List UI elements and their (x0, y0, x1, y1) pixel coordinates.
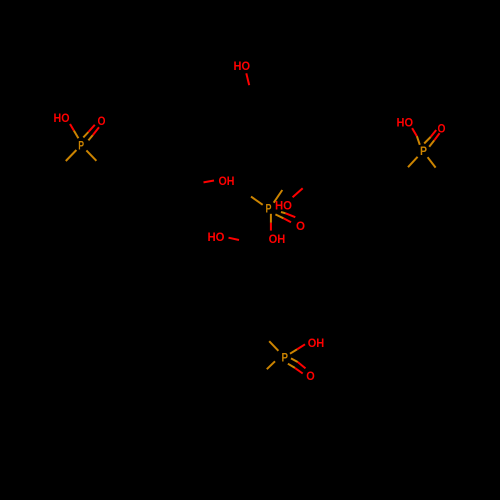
double bond P=O left line2 orange (88, 135, 92, 140)
wire bond stub top O-C (246, 73, 249, 85)
svg-text:OH: OH (308, 336, 325, 350)
bond P-C bottom up-left (269, 341, 278, 351)
double bond P=O right line2 red (434, 133, 439, 140)
double bond P=O right line1 red (431, 130, 437, 137)
bond P-C central up-left (251, 197, 263, 205)
bond P-OH central vertical orange half (270, 214, 272, 223)
bond HO-P left (orange half) (74, 131, 79, 139)
svg-text:O: O (306, 369, 315, 383)
double bond P=O left line2 red (93, 127, 99, 135)
double bond P=O bottom line2 orange (288, 364, 295, 368)
bond P-C right down-right (428, 157, 436, 167)
double bond P=O left line1 orange (83, 132, 88, 137)
svg-text:P: P (282, 350, 289, 364)
double bond P=O central line1 red (286, 213, 296, 217)
svg-text:OH: OH (219, 174, 235, 188)
svg-text:HO: HO (397, 115, 414, 129)
bond HO-P right (red half) (412, 128, 417, 136)
bond stub C-OH central upper-left (204, 181, 215, 183)
bond stub HO-C central lower-left (229, 238, 240, 240)
svg-text:HO: HO (234, 59, 251, 73)
double bond P=O bottom line1 orange (291, 358, 298, 362)
svg-text:P: P (78, 138, 84, 152)
bond P-OH central vertical red half (270, 223, 272, 231)
bond HO-P right (orange half) (417, 136, 420, 145)
svg-text:O: O (296, 219, 305, 233)
bond P-OH bottom red half (297, 344, 305, 349)
bond stub HO-C central right (293, 188, 303, 197)
double bond P=O central line1 orange (281, 212, 286, 213)
double bond P=O right line2 orange (429, 140, 434, 147)
double bond P=O bottom line2 red (295, 368, 303, 374)
svg-text:P: P (420, 144, 427, 158)
double bond P=O central line2 red (284, 218, 292, 222)
bond P-C left down-right (86, 150, 96, 160)
double bond P=O bottom line1 red (298, 362, 306, 368)
bond P-C bottom down-left (267, 361, 275, 369)
svg-text:OH: OH (269, 232, 286, 246)
svg-text:HO: HO (54, 111, 70, 125)
bond P-C left down-left (66, 150, 77, 161)
double bond P=O central line2 orange (275, 214, 283, 218)
bond P-OH bottom orange half (290, 349, 297, 353)
svg-text:O: O (98, 114, 106, 128)
double bond P=O left line1 red (88, 125, 94, 132)
svg-text:HO: HO (275, 199, 292, 213)
svg-text:HO: HO (208, 230, 225, 244)
double bond P=O right line1 orange (424, 137, 430, 144)
svg-text:P: P (266, 201, 272, 215)
bond P-C central up-right (274, 190, 283, 203)
bond HO-P left (red half) (70, 124, 74, 131)
bond P-C right down-left (408, 157, 418, 167)
